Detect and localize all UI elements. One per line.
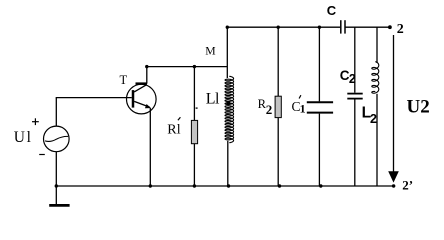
svg-text:l: l (27, 129, 31, 146)
svg-text:l: l (177, 123, 181, 138)
svg-text:2: 2 (266, 102, 273, 117)
svg-text:2: 2 (397, 22, 404, 37)
svg-text:l: l (215, 91, 220, 108)
svg-text:2: 2 (349, 72, 356, 86)
svg-text:R: R (167, 123, 177, 138)
svg-text:U: U (14, 129, 25, 146)
svg-text:2: 2 (370, 112, 377, 126)
svg-text:2’: 2’ (402, 178, 413, 193)
svg-text:M: M (205, 45, 216, 58)
svg-text:T: T (120, 73, 128, 87)
svg-text:1: 1 (300, 102, 306, 116)
svg-text:C: C (327, 3, 337, 18)
svg-text:U2: U2 (407, 96, 430, 117)
